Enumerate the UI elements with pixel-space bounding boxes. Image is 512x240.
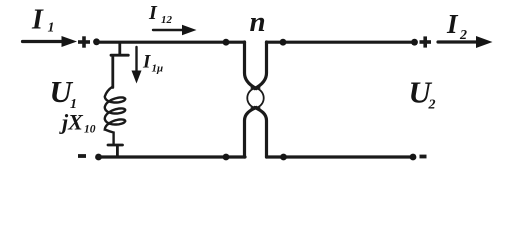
transformer coupling lens xyxy=(247,88,263,108)
minus terminal right xyxy=(420,155,427,159)
arrow I1mu xyxy=(132,47,142,84)
wire top-left xyxy=(97,41,245,44)
svg-text:2: 2 xyxy=(428,98,436,113)
transformer right winding xyxy=(255,42,267,89)
label n xyxy=(250,6,266,38)
node dot top right outer xyxy=(411,39,418,46)
node dot bottom right inner xyxy=(280,154,287,161)
label U2 xyxy=(409,75,436,113)
node dot left top xyxy=(93,38,100,45)
plus terminal right xyxy=(420,36,432,47)
arrow I12 xyxy=(153,25,197,35)
junction dot bottom middle xyxy=(223,154,230,161)
label I1mu xyxy=(142,52,163,75)
arrow I1 xyxy=(23,36,78,47)
junction dot top middle xyxy=(223,39,230,46)
label I12 xyxy=(148,2,173,26)
minus terminal left xyxy=(78,154,86,158)
svg-text:jX: jX xyxy=(59,110,84,135)
wire bottom-left xyxy=(99,155,246,158)
svg-text:10: 10 xyxy=(84,124,96,136)
plus terminal left xyxy=(78,36,90,47)
label U1 xyxy=(50,74,78,112)
magnetizing branch upper stub xyxy=(111,44,128,88)
svg-text:1: 1 xyxy=(48,21,55,36)
svg-text:n: n xyxy=(250,6,266,38)
transformer left winding xyxy=(245,42,257,89)
wire bottom-right xyxy=(267,155,414,158)
label jX10 xyxy=(59,110,96,136)
svg-text:I: I xyxy=(446,9,459,39)
node dot bottom right outer xyxy=(410,154,417,161)
inductor coil jX10 xyxy=(105,87,125,144)
node dot top right inner xyxy=(280,39,287,46)
svg-text:1μ: 1μ xyxy=(152,63,164,75)
label I2 xyxy=(446,9,467,43)
svg-text:I: I xyxy=(142,52,151,73)
svg-text:I: I xyxy=(148,2,158,24)
svg-text:I: I xyxy=(31,5,44,36)
arrow I2 xyxy=(438,36,493,48)
node dot left bottom xyxy=(95,154,102,161)
wire top-right xyxy=(267,41,416,44)
label I1 xyxy=(31,5,55,36)
svg-text:12: 12 xyxy=(161,14,173,26)
magnetizing branch lower stub xyxy=(108,145,123,157)
